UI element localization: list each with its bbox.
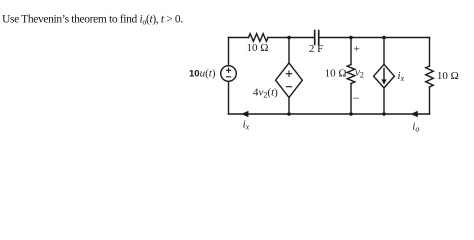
node dot top B: [349, 36, 353, 40]
resistor R3 10ohm right vertical: [426, 66, 434, 87]
wire below dependent source E1: [288, 98, 290, 115]
svg-text:io: io: [412, 121, 419, 134]
dependent source F1 arrow shaft: [383, 69, 385, 82]
current arrow ix (bottom left, pointing left): [241, 111, 248, 118]
dependent voltage source E1 4v2(t) diamond: [276, 63, 303, 98]
wire below resistor R3: [429, 87, 431, 114]
node dot top C: [382, 36, 386, 40]
dependent current source F1 ix diamond: [374, 64, 395, 88]
wire top-left segment: [229, 37, 249, 39]
svg-text:+: +: [354, 44, 360, 56]
voltage source VS 10u(t) circle: [221, 66, 237, 82]
svg-text:−: −: [353, 91, 360, 105]
capacitor C1 2F plates: [315, 31, 319, 45]
wire top middle segment (R1 to capacitor): [268, 37, 314, 39]
node dot bottom B: [349, 112, 353, 116]
svg-text:4v2(t): 4v2(t): [253, 87, 278, 100]
resistor R1 10ohm top horizontal: [249, 34, 269, 42]
wire left branch upper: [228, 38, 230, 66]
resistor R2 10ohm middle vertical: [347, 65, 355, 84]
wire left branch lower: [228, 81, 230, 114]
wire above resistor R2: [350, 38, 352, 65]
node dot bottom C: [382, 112, 386, 116]
node dot bottom A: [287, 112, 291, 116]
wire above dependent current source F1: [383, 38, 385, 65]
svg-text:10u(t): 10u(t): [189, 68, 216, 80]
voltage source minus sign: [226, 76, 230, 78]
wire below dependent source F1: [383, 88, 385, 114]
wire branch above dependent source E1: [288, 38, 290, 64]
svg-text:v2: v2: [355, 67, 364, 80]
svg-text:2 F: 2 F: [309, 43, 323, 55]
svg-text:ix: ix: [243, 119, 250, 132]
svg-text:Use Thevenin’s theorem to find: Use Thevenin’s theorem to find io(t), t …: [2, 13, 183, 26]
svg-text:10 Ω: 10 Ω: [325, 68, 347, 80]
svg-text:10 Ω: 10 Ω: [247, 42, 269, 54]
dependent source E1 minus sign: [286, 86, 291, 88]
dependent source F1 arrowhead: [381, 79, 386, 84]
dependent source E1 plus sign: [286, 71, 291, 76]
wire above resistor R3: [429, 38, 431, 67]
wire below resistor R2: [350, 84, 352, 115]
wire bottom: [229, 113, 430, 115]
wire top right segment (capacitor to top-right corner): [319, 37, 430, 39]
node dot top A: [287, 36, 291, 40]
svg-text:ix: ix: [398, 70, 405, 83]
current arrow io (bottom right, pointing left): [411, 111, 418, 118]
voltage source plus sign: [227, 68, 231, 72]
svg-text:10 Ω: 10 Ω: [437, 70, 459, 82]
